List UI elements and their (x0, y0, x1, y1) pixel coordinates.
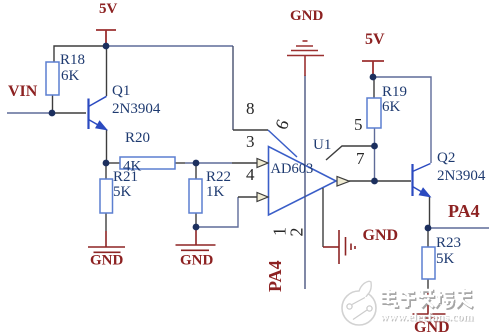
svg-text:GND: GND (90, 253, 124, 269)
svg-text:GND: GND (414, 319, 450, 334)
svg-text:5K: 5K (113, 184, 132, 200)
svg-text:R22: R22 (206, 169, 231, 185)
svg-text:5V: 5V (99, 1, 118, 17)
svg-text:2N3904: 2N3904 (112, 101, 161, 117)
svg-text:8: 8 (246, 99, 255, 118)
svg-text:5K: 5K (436, 251, 455, 267)
svg-text:Q1: Q1 (112, 83, 130, 99)
svg-text:R18: R18 (60, 52, 85, 68)
svg-text:GND: GND (180, 253, 214, 269)
svg-text:GND: GND (290, 8, 324, 24)
svg-text:R21: R21 (113, 169, 138, 185)
svg-text:5: 5 (354, 115, 363, 134)
svg-text:U1: U1 (313, 137, 331, 153)
svg-text:1K: 1K (206, 184, 225, 200)
svg-text:6K: 6K (61, 68, 80, 84)
svg-text:R20: R20 (125, 130, 150, 146)
svg-text:2: 2 (287, 228, 307, 237)
svg-text:PA4: PA4 (448, 201, 480, 221)
svg-text:6K: 6K (382, 99, 401, 115)
svg-text:3: 3 (246, 132, 255, 151)
svg-text:5V: 5V (365, 31, 385, 48)
svg-text:VIN: VIN (8, 83, 38, 100)
svg-text:4: 4 (246, 165, 255, 184)
svg-text:Q2: Q2 (437, 150, 455, 166)
svg-text:AD603: AD603 (271, 161, 314, 177)
svg-text:2N3904: 2N3904 (437, 168, 486, 184)
svg-text:R19: R19 (382, 84, 407, 100)
svg-text:GND: GND (363, 227, 399, 244)
svg-text:R23: R23 (436, 235, 461, 251)
svg-text:PA4: PA4 (265, 260, 285, 292)
svg-text:7: 7 (356, 149, 365, 168)
